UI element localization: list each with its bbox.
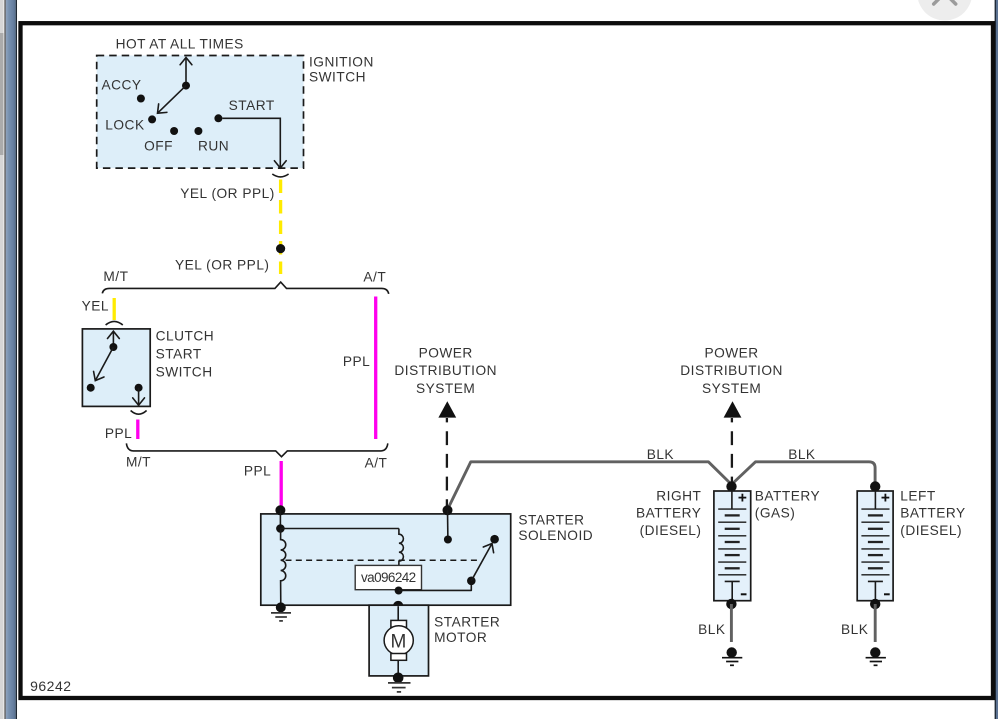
LOCK position dot: [148, 115, 156, 123]
junction dot under label: [395, 587, 403, 595]
svg-text:ACCY: ACCY: [102, 77, 142, 92]
connector cap below clutch switch: [131, 411, 147, 415]
svg-text:RUN: RUN: [198, 138, 229, 153]
clutch switch up arrow: [112, 331, 114, 347]
wire PPL center magenta: [280, 461, 283, 508]
svg-text:YEL: YEL: [82, 299, 109, 314]
svg-text:RIGHT: RIGHT: [656, 489, 701, 504]
starter motor box: [369, 605, 428, 676]
PDS left arrowhead: [438, 401, 456, 417]
svg-text:BLK: BLK: [841, 622, 868, 637]
svg-text:STARTER: STARTER: [434, 614, 500, 629]
gas battery ground wire: [730, 604, 733, 642]
motor wire bottom: [397, 660, 399, 678]
svg-text:DISTRIBUTION: DISTRIBUTION: [394, 363, 497, 378]
wire: [447, 510, 449, 539]
switch wire: [399, 581, 472, 591]
wire PPL left magenta: [136, 420, 139, 440]
svg-text:M/T: M/T: [126, 455, 151, 470]
ignition switch box: [97, 56, 304, 169]
ground motor: [388, 683, 411, 692]
window left blue bar: [6, 0, 16, 719]
svg-text:START: START: [156, 347, 202, 362]
window right edge: [995, 0, 996, 719]
connector cap below ignition switch: [272, 174, 288, 177]
motor wire top: [397, 606, 399, 620]
gas battery cells: [731, 491, 733, 509]
svg-text:(DIESEL): (DIESEL): [900, 523, 962, 538]
svg-text:PPL: PPL: [343, 354, 370, 369]
wire: [279, 510, 281, 528]
svg-text:BLK: BLK: [698, 622, 725, 637]
solenoid terminal dot right: [443, 505, 453, 515]
svg-text:MOTOR: MOTOR: [434, 630, 487, 645]
connector cap above clutch switch: [106, 321, 123, 325]
left battery bottom dot: [870, 599, 880, 609]
motor brush top: [391, 620, 407, 627]
motor ground dot: [393, 673, 404, 684]
left coil: [281, 529, 286, 608]
svg-text:PPL: PPL: [244, 463, 271, 478]
ACCY position dot: [137, 95, 145, 103]
svg-text:SYSTEM: SYSTEM: [416, 381, 475, 396]
svg-text:BATTERY: BATTERY: [900, 506, 965, 521]
svg-text:YEL (OR PPL): YEL (OR PPL): [180, 186, 275, 201]
svg-text:A/T: A/T: [363, 269, 386, 284]
svg-text:96242: 96242: [30, 678, 71, 694]
svg-text:BATTERY: BATTERY: [755, 489, 820, 504]
splice brace bottom: [126, 443, 387, 456]
svg-text:PPL: PPL: [105, 426, 132, 441]
wire YEL (OR PPL) dashed yellow: [279, 180, 282, 275]
dashed linkage: [286, 559, 480, 561]
motor brush bottom: [391, 654, 407, 661]
junction dot: [276, 524, 285, 533]
left battery ground: [870, 647, 880, 657]
close button: [917, 0, 972, 21]
ignition switch wiper up arrow: [185, 58, 187, 86]
left battery T: [868, 581, 883, 600]
left battery plus: [882, 494, 890, 502]
OFF position dot: [170, 127, 178, 135]
svg-text:OFF: OFF: [144, 138, 173, 153]
clutch pivot dot: [109, 343, 117, 351]
wire PPL right magenta A/T: [374, 297, 377, 440]
svg-text:SWITCH: SWITCH: [156, 365, 213, 380]
clutch contact dot left: [87, 384, 95, 392]
contact dot: [444, 536, 452, 544]
solenoid output dot: [393, 601, 404, 612]
splice brace top: [102, 282, 388, 294]
window left scrollbar strip: [0, 0, 4, 719]
svg-text:IGNITION: IGNITION: [309, 54, 374, 69]
svg-text:A/T: A/T: [365, 456, 388, 471]
svg-text:(GAS): (GAS): [755, 506, 796, 521]
clutch wiper arm arrow: [95, 347, 113, 381]
left battery cells: [874, 491, 876, 509]
svg-text:DISTRIBUTION: DISTRIBUTION: [680, 363, 783, 378]
gas battery ground: [727, 647, 737, 657]
solenoid switch contact dot: [490, 535, 499, 544]
starter solenoid box: [261, 514, 511, 605]
left battery box: [857, 491, 893, 601]
ignition switch wiper pivot dot: [182, 82, 190, 90]
svg-text:M: M: [391, 632, 407, 653]
wire BLK grey main: [448, 462, 876, 510]
va096242 label box: [355, 565, 421, 589]
svg-text:POWER: POWER: [419, 345, 473, 360]
START output wire with arrow: [222, 118, 280, 168]
clutch start switch box: [82, 329, 150, 407]
svg-text:SYSTEM: SYSTEM: [702, 381, 761, 396]
left battery ground wire: [874, 604, 877, 642]
svg-text:HOT AT ALL TIMES: HOT AT ALL TIMES: [116, 36, 244, 51]
clutch output down arrow: [138, 388, 140, 406]
svg-text:va096242: va096242: [361, 570, 416, 585]
clutch contact dot right: [135, 384, 143, 392]
solenoid switch pivot dot: [467, 577, 476, 586]
ground solenoid: [271, 613, 291, 621]
left battery minus: [884, 593, 890, 595]
svg-text:LEFT: LEFT: [900, 489, 936, 504]
RUN position dot: [194, 127, 202, 135]
ignition switch wiper arm arrow: [158, 86, 187, 114]
svg-text:STARTER: STARTER: [518, 513, 584, 528]
svg-text:BLK: BLK: [788, 447, 815, 462]
wire YEL solid: [113, 298, 116, 320]
svg-text:BLK: BLK: [647, 447, 674, 462]
gas battery plus: [739, 494, 747, 502]
motor M circle: [384, 626, 413, 655]
svg-text:BATTERY: BATTERY: [636, 506, 701, 521]
svg-text:LOCK: LOCK: [105, 117, 144, 132]
PDS right dashed wire: [731, 418, 733, 487]
svg-text:SOLENOID: SOLENOID: [518, 528, 593, 543]
gas battery terminal dot: [726, 481, 736, 491]
left battery terminal dot: [870, 481, 880, 491]
wire to right coil: [280, 528, 399, 530]
solenoid coil ground dot: [276, 602, 286, 612]
PDS right arrowhead: [724, 401, 742, 417]
PDS left dashed wire: [446, 418, 448, 509]
svg-text:START: START: [229, 98, 275, 113]
gas battery box: [714, 491, 751, 601]
svg-text:POWER: POWER: [704, 345, 758, 360]
svg-text:CLUTCH: CLUTCH: [156, 329, 215, 344]
svg-text:SWITCH: SWITCH: [309, 69, 366, 84]
gas battery minus: [741, 593, 747, 595]
gas battery bottom dot: [726, 599, 736, 609]
solenoid terminal dot left: [275, 505, 285, 515]
gas battery T: [725, 581, 740, 600]
svg-text:YEL (OR PPL): YEL (OR PPL): [175, 257, 270, 272]
solenoid switch arm arrow: [471, 544, 492, 581]
svg-text:(DIESEL): (DIESEL): [640, 523, 702, 538]
START position dot: [214, 114, 222, 122]
svg-text:M/T: M/T: [103, 269, 128, 284]
right coil: [399, 529, 404, 591]
junction dot: [276, 244, 285, 253]
